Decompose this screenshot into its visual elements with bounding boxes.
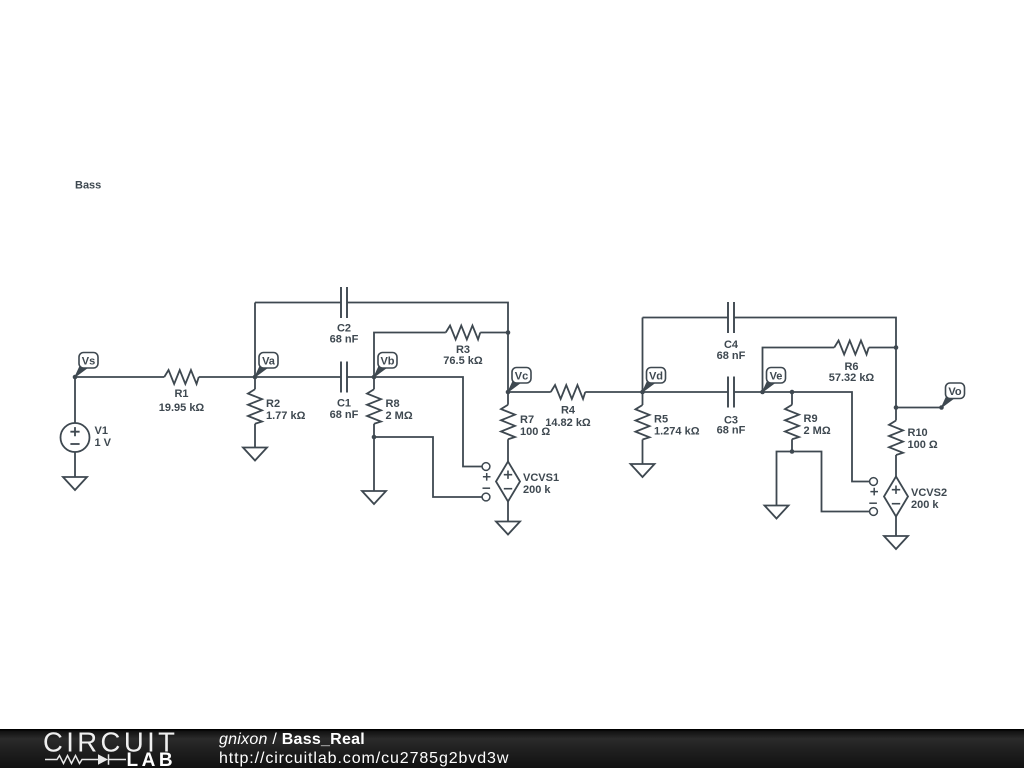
- wire R9 top lead: [791, 392, 793, 405]
- junction R6-rail: [894, 345, 899, 350]
- wire C2 right: [347, 303, 508, 393]
- wire R10 to VCVS2: [895, 455, 897, 477]
- node Va: [253, 353, 278, 380]
- wire R1 to Va: [199, 376, 255, 378]
- wire R6 to rail: [869, 347, 896, 349]
- svg-text:19.95 kΩ: 19.95 kΩ: [159, 402, 205, 414]
- wire junction to ground: [777, 452, 793, 506]
- VCVS1 control - terminal: [482, 488, 490, 501]
- ground: [243, 448, 267, 461]
- svg-text:C1: C1: [337, 397, 351, 409]
- ground: [63, 477, 87, 490]
- resistor R5: [636, 405, 700, 440]
- svg-text:V1: V1: [95, 425, 108, 437]
- wire R4 to Vd: [585, 391, 642, 393]
- wire R5 top lead: [642, 392, 644, 405]
- svg-text:http://circuitlab.com/cu2785g2: http://circuitlab.com/cu2785g2bvd3w: [219, 750, 509, 767]
- svg-text:68 nF: 68 nF: [717, 425, 746, 437]
- node Ve: [760, 368, 785, 395]
- wire Va to C1: [255, 376, 341, 378]
- ground: [884, 536, 908, 549]
- dependent source VCVS2: [884, 477, 947, 517]
- svg-text:R2: R2: [266, 398, 280, 410]
- resistor R9: [785, 405, 831, 440]
- wire Vb riser to R3: [374, 333, 446, 378]
- svg-text:VCVS2: VCVS2: [911, 487, 947, 499]
- svg-text:14.82 kΩ: 14.82 kΩ: [545, 417, 591, 429]
- wire Ve riser to R6: [763, 348, 835, 393]
- svg-text:68 nF: 68 nF: [717, 350, 746, 362]
- resistor R3: [443, 326, 483, 368]
- wire C3 to Ve: [734, 391, 763, 393]
- VCVS1 control + terminal: [482, 463, 490, 481]
- VCVS2 control + terminal: [870, 478, 878, 496]
- CircuitLab logo: [43, 727, 178, 768]
- ground: [631, 464, 655, 477]
- wire Vs to R1: [75, 376, 164, 378]
- wire junction to ground: [373, 437, 375, 491]
- resistor R4: [545, 385, 591, 429]
- svg-text:100 Ω: 100 Ω: [908, 439, 938, 451]
- svg-text:VCVS1: VCVS1: [523, 472, 559, 484]
- wire R2 to ground: [254, 424, 256, 448]
- svg-text:R5: R5: [654, 414, 668, 426]
- svg-text:1.274 kΩ: 1.274 kΩ: [654, 426, 700, 438]
- resistor R6: [829, 341, 875, 385]
- wire VCVS1 to ground: [507, 502, 509, 522]
- wire R8 top lead: [373, 377, 375, 389]
- capacitor C4: [717, 302, 746, 362]
- wire Vd riser to C4: [642, 318, 644, 393]
- wire C1 to Vb: [347, 376, 374, 378]
- footer bar: [0, 729, 1024, 768]
- junction Vo tap: [894, 405, 899, 410]
- wire R7 to VCVS1: [507, 439, 509, 461]
- svg-text:R1: R1: [174, 388, 188, 400]
- wire R2 top lead: [254, 377, 256, 389]
- ground: [496, 522, 520, 535]
- svg-text:200 k: 200 k: [523, 484, 551, 496]
- capacitor C1: [330, 362, 359, 421]
- wire Vo tap: [896, 407, 942, 409]
- wire C4 left: [643, 317, 729, 319]
- wire Vd to C3: [643, 391, 729, 393]
- wire C2 left: [255, 302, 341, 304]
- wire Ve to R9: [763, 391, 793, 393]
- node Vd: [640, 368, 665, 395]
- svg-text:1 V: 1 V: [95, 437, 112, 449]
- svg-text:LAB: LAB: [127, 750, 177, 768]
- svg-text:76.5 kΩ: 76.5 kΩ: [443, 355, 483, 367]
- junction R8 bottom: [372, 435, 377, 440]
- svg-text:gnixon / Bass_Real: gnixon / Bass_Real: [219, 731, 365, 748]
- wire R5 to ground: [642, 440, 644, 465]
- ground: [765, 506, 789, 519]
- wire R9 to junction: [791, 439, 793, 451]
- wire VCVS2 to ground: [895, 517, 897, 537]
- wire R3 to rail: [480, 332, 508, 334]
- svg-text:Bass: Bass: [75, 180, 101, 192]
- node Vs: [73, 353, 98, 380]
- resistor R10: [889, 421, 938, 456]
- svg-text:57.32 kΩ: 57.32 kΩ: [829, 372, 875, 384]
- svg-text:Vd: Vd: [649, 370, 663, 382]
- wire V1 to ground: [74, 452, 76, 477]
- svg-text:200 k: 200 k: [911, 499, 939, 511]
- resistor R7: [501, 405, 550, 440]
- voltage source V1: [61, 423, 112, 452]
- dependent source VCVS1: [496, 462, 559, 502]
- junction R9 bottom: [790, 449, 795, 454]
- svg-text:R7: R7: [520, 414, 534, 426]
- wire R10 top lead: [895, 408, 897, 421]
- svg-text:Va: Va: [262, 355, 276, 367]
- capacitor C2: [330, 287, 359, 346]
- wire Vc to R4: [508, 391, 551, 393]
- svg-text:R9: R9: [804, 413, 818, 425]
- svg-text:68 nF: 68 nF: [330, 409, 359, 421]
- junction R3-rail: [506, 330, 511, 335]
- capacitor C3: [717, 377, 746, 437]
- resistor R1: [159, 370, 205, 414]
- wire Vs to V1: [74, 377, 76, 423]
- wire R9 junction to VCVS2 minus input: [792, 452, 870, 512]
- node Vc: [506, 368, 531, 395]
- svg-text:Vb: Vb: [380, 355, 394, 367]
- svg-text:Vs: Vs: [82, 355, 95, 367]
- svg-text:1.77 kΩ: 1.77 kΩ: [266, 410, 306, 422]
- svg-text:R10: R10: [908, 427, 928, 439]
- wire Ve to VCVS2 plus input: [792, 392, 870, 482]
- wire R8 junction to VCVS1 minus input: [374, 437, 482, 497]
- node Vo: [939, 383, 964, 410]
- wire Va riser to C2: [254, 303, 256, 378]
- svg-text:Ve: Ve: [770, 370, 783, 382]
- node Vb: [372, 353, 397, 380]
- wire C4 right: [734, 318, 896, 408]
- svg-text:R8: R8: [386, 398, 400, 410]
- VCVS2 control - terminal: [869, 503, 877, 515]
- ground: [362, 491, 386, 504]
- wire R7 top lead: [507, 392, 509, 405]
- svg-text:Vc: Vc: [515, 370, 528, 382]
- svg-text:Vo: Vo: [948, 386, 962, 398]
- svg-text:68 nF: 68 nF: [330, 334, 359, 346]
- resistor R8: [367, 389, 413, 424]
- svg-text:R4: R4: [561, 405, 576, 417]
- svg-text:2 MΩ: 2 MΩ: [804, 425, 831, 437]
- svg-text:2 MΩ: 2 MΩ: [386, 410, 413, 422]
- wire Vb to VCVS1 plus input: [374, 377, 482, 467]
- wire R8 to junction: [373, 424, 375, 437]
- resistor R2: [248, 389, 306, 424]
- junction R9 top: [790, 390, 795, 395]
